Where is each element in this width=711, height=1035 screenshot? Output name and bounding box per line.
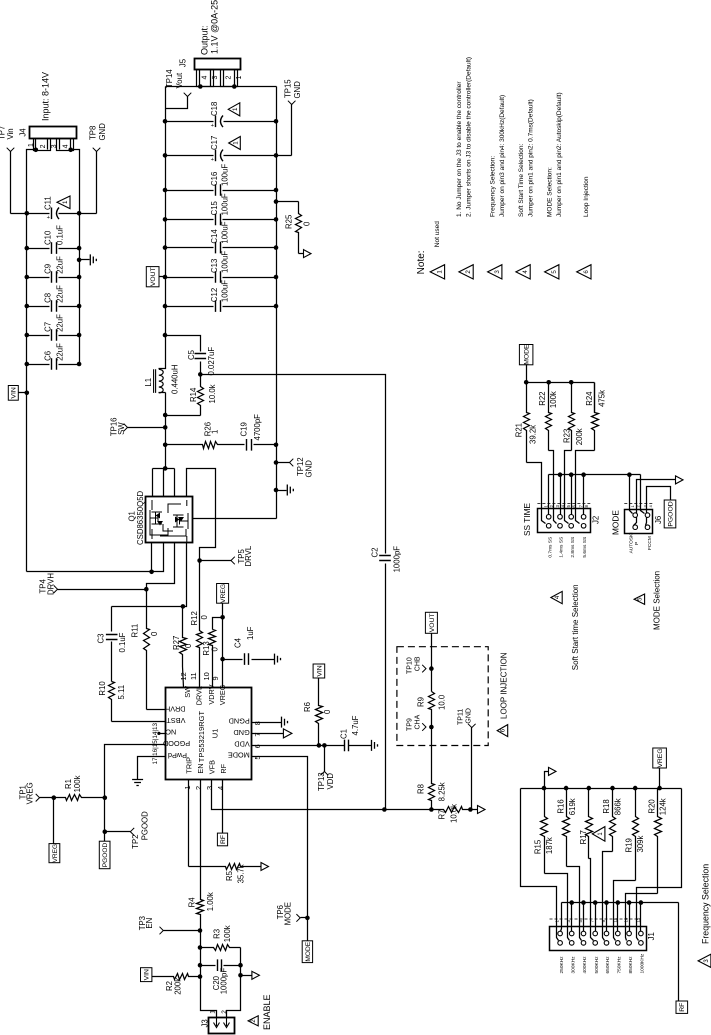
capacitor C17 — [166, 155, 214, 157]
svg-text:10.0k: 10.0k — [450, 804, 459, 823]
svg-text:VREG: VREG — [52, 844, 59, 863]
resistor R16 619k — [563, 789, 570, 867]
note triangle 2 at J3 — [248, 1016, 258, 1026]
svg-text:CSD86350Q5D: CSD86350Q5D — [136, 490, 145, 545]
svg-text:U1: U1 — [211, 729, 220, 739]
svg-text:MODE Selection: MODE Selection — [652, 571, 661, 630]
note triangle 3 at freq — [698, 954, 711, 967]
svg-text:R1: R1 — [64, 779, 73, 789]
resistor R11 0 — [144, 590, 150, 710]
svg-text:VDRV: VDRV — [207, 684, 216, 704]
capacitor C2 1000pF — [379, 556, 391, 561]
resistor R18 866k — [610, 789, 616, 852]
svg-text:500KHz: 500KHz — [594, 956, 600, 974]
resistor R5 35.7k — [189, 864, 262, 870]
svg-text:C9: C9 — [44, 264, 53, 274]
svg-text:250KHz: 250KHz — [559, 956, 565, 974]
svg-text:1.4ms SS: 1.4ms SS — [559, 537, 565, 558]
svg-text:R6: R6 — [303, 702, 312, 712]
note triangle 1 legend — [430, 265, 444, 279]
wire SS common line — [549, 474, 641, 476]
svg-text:VOUT: VOUT — [150, 267, 157, 286]
svg-text:1: 1 — [210, 430, 219, 434]
wire GND rail input — [79, 214, 81, 365]
testpoint TP11 GND — [468, 724, 476, 728]
svg-text:MODE Selection:: MODE Selection: — [547, 167, 554, 217]
svg-text:0: 0 — [211, 647, 220, 652]
svg-text:R14: R14 — [189, 387, 198, 402]
svg-text:R8: R8 — [417, 784, 426, 794]
svg-text:MODE: MODE — [611, 510, 621, 535]
svg-text:VOUT: VOUT — [429, 613, 436, 632]
svg-text:GND: GND — [233, 728, 249, 737]
svg-text:1: 1 — [236, 76, 243, 80]
svg-text:TP11: TP11 — [458, 709, 465, 725]
net label VREG below TP1 — [49, 844, 60, 863]
svg-text:R18: R18 — [602, 799, 611, 813]
wire J6 autoskip to arrow — [634, 480, 676, 526]
net label RF at J1 — [676, 1001, 688, 1013]
wire pin 8 PGND ground — [252, 722, 282, 724]
svg-text:11: 11 — [189, 672, 198, 680]
svg-text:R9: R9 — [417, 697, 426, 707]
svg-text:1000pF: 1000pF — [393, 546, 402, 573]
wire pin 3 VFB line — [212, 780, 432, 810]
svg-text:400KHz: 400KHz — [582, 956, 588, 974]
svg-text:VREG: VREG — [26, 782, 35, 804]
note triangle 5 legend — [545, 265, 559, 279]
svg-text:C7: C7 — [44, 322, 53, 332]
svg-text:C14: C14 — [210, 229, 219, 244]
svg-text:10.0: 10.0 — [438, 694, 447, 710]
svg-text:3: 3 — [205, 786, 214, 790]
inductor L1 0.440uH — [159, 336, 166, 369]
svg-text:Not used: Not used — [434, 221, 441, 247]
svg-text:Soft Start Time Selection:: Soft Start Time Selection: — [518, 143, 525, 217]
note triangle 6 legend — [577, 265, 591, 279]
svg-text:RF: RF — [679, 1003, 686, 1012]
svg-text:0: 0 — [302, 221, 311, 226]
net label RF at pin 4 — [217, 833, 227, 846]
wire Q1 DRVH pin — [147, 543, 175, 590]
svg-text:12: 12 — [179, 672, 188, 680]
testpoint TP12 GND — [277, 462, 290, 464]
svg-text:Loop Injection: Loop Injection — [583, 176, 590, 217]
wire GND rail to Q1 — [193, 518, 277, 520]
svg-text:PGOOD: PGOOD — [102, 842, 109, 867]
svg-text:187k: 187k — [545, 837, 554, 854]
svg-text:1uF: 1uF — [246, 626, 255, 640]
wire J6 fccm to PGOOD — [646, 487, 671, 526]
testpoint TP9 CHA — [422, 723, 426, 731]
svg-text:TP15: TP15 — [283, 79, 292, 98]
resistor R6 0 — [313, 664, 325, 678]
svg-text:VREG: VREG — [657, 748, 664, 767]
svg-text:2: 2 — [465, 270, 472, 274]
svg-text:DRVH: DRVH — [165, 704, 186, 713]
wire pin 7 GND triangle — [252, 733, 284, 735]
net label VIN on rail — [8, 386, 18, 401]
svg-text:R24: R24 — [585, 391, 594, 406]
wire RF line to RF label — [678, 903, 680, 1002]
svg-text:Jumper on pin1 and pin2: 0.7ms: Jumper on pin1 and pin2: 0.7ms(Default) — [527, 99, 534, 217]
svg-text:8: 8 — [253, 721, 262, 725]
capacitor C11 — [11, 213, 50, 215]
svg-text:R25: R25 — [285, 214, 294, 229]
svg-text:R5: R5 — [225, 870, 234, 881]
svg-text:100uF: 100uF — [221, 251, 230, 273]
svg-text:VIN: VIN — [144, 969, 151, 980]
note triangle 5 at MODE — [634, 594, 645, 604]
svg-text:P: P — [634, 542, 640, 545]
svg-text:0.440uH: 0.440uH — [170, 365, 179, 394]
svg-text:R19: R19 — [625, 838, 634, 852]
wire C5 junction to C2 — [201, 375, 386, 554]
svg-text:1: 1 — [437, 270, 444, 274]
svg-text:J3: J3 — [200, 1019, 209, 1027]
note triangle 2 legend — [459, 265, 473, 279]
wire pin 5 MODE net — [252, 757, 308, 941]
svg-text:22uF: 22uF — [55, 285, 64, 303]
ground at C10 row — [80, 259, 90, 261]
svg-text:EN: EN — [145, 918, 154, 929]
svg-text:Jumper on pin3 and pin4: 300kH: Jumper on pin3 and pin4: 300kHz(Default) — [499, 95, 506, 217]
wire Q1 SW pins to SW rail — [152, 469, 154, 497]
svg-text:C13: C13 — [210, 259, 219, 273]
svg-text:475k: 475k — [597, 390, 606, 407]
wire VIN to Q1 — [27, 543, 164, 572]
resistor R1 100k — [40, 795, 105, 801]
resistor R12 0 — [197, 561, 203, 688]
svg-text:CHB: CHB — [415, 656, 422, 671]
resistor R3 100k — [201, 945, 241, 951]
svg-text:0.027uF: 0.027uF — [207, 347, 216, 376]
svg-text:R11: R11 — [131, 624, 140, 638]
testpoint TP5 DRVL — [200, 560, 232, 562]
svg-text:0.1uF: 0.1uF — [55, 225, 64, 245]
capacitor C16 100uF — [166, 190, 214, 192]
resistor R8 8.25k — [429, 728, 435, 810]
wire RF common line — [562, 902, 679, 904]
capacitor C18 — [166, 121, 214, 123]
wire Q1 DRVL path — [187, 469, 216, 561]
op-amp U1 TPS53219RGT body — [166, 688, 252, 780]
svg-text:FCCM: FCCM — [647, 536, 653, 550]
svg-text:Frequency Selection: Frequency Selection — [700, 864, 710, 944]
wire SS common to J2 pins — [548, 475, 550, 515]
svg-text:100uF: 100uF — [221, 221, 230, 243]
svg-text:13: 13 — [624, 917, 629, 922]
svg-text:2.8ms SS: 2.8ms SS — [570, 537, 576, 558]
capacitor C20 1000pF — [201, 965, 216, 967]
wire RF line to J1 top pins — [561, 903, 562, 932]
resistor R25 0 — [277, 201, 299, 203]
svg-text:1.00k: 1.00k — [206, 892, 215, 911]
testpoint TP6 MODE — [301, 917, 308, 919]
loop injection dashed box — [397, 647, 488, 746]
svg-text:1000pF: 1000pF — [220, 968, 229, 995]
note triangle 1 at C17 — [229, 137, 241, 150]
resistor R21 39.2k — [524, 383, 530, 463]
svg-text:10.0k: 10.0k — [208, 384, 217, 403]
svg-text:R27: R27 — [172, 636, 181, 650]
resistor R23 200k — [569, 383, 575, 451]
capacitor C7 22uF — [27, 335, 50, 337]
svg-text:NC: NC — [166, 727, 177, 736]
svg-text:5.6ms SS: 5.6ms SS — [582, 537, 588, 558]
resistor R13 0 — [213, 618, 223, 630]
svg-text:1: 1 — [28, 143, 35, 147]
svg-text:J5: J5 — [179, 58, 188, 67]
svg-text:5: 5 — [551, 270, 558, 274]
wire VIN rail left — [26, 214, 28, 572]
svg-text:AUTOSKI: AUTOSKI — [629, 532, 635, 553]
svg-text:TP10: TP10 — [407, 657, 414, 674]
svg-text:SW: SW — [183, 686, 192, 698]
svg-text:VBST: VBST — [166, 716, 186, 725]
net label VREG at driver — [217, 584, 229, 604]
svg-text:22uF: 22uF — [55, 314, 64, 332]
capacitor C1 4.7uF — [345, 740, 349, 752]
svg-text:RF: RF — [219, 763, 228, 773]
resistor R10 5.11 — [109, 682, 115, 722]
svg-text:VFB: VFB — [208, 760, 217, 774]
wire pin 17 to ground — [138, 757, 166, 780]
svg-text:8.25k: 8.25k — [438, 782, 447, 801]
testpoint TP13 VDD — [324, 746, 326, 772]
svg-text:J4: J4 — [19, 128, 28, 137]
net label MODE at soft start — [519, 345, 533, 365]
svg-text:R3: R3 — [213, 929, 222, 939]
svg-text:GND: GND — [305, 460, 314, 478]
net label PGOOD below TP2 — [99, 841, 110, 869]
svg-text:GND: GND — [293, 81, 302, 99]
capacitor C5 0.027uF — [166, 336, 201, 352]
svg-text:17|16|15|14|13: 17|16|15|14|13 — [152, 722, 159, 764]
svg-text:0: 0 — [150, 631, 159, 636]
svg-text:DRVH: DRVH — [46, 573, 55, 595]
svg-text:C10: C10 — [44, 230, 53, 245]
connector J1 frequency header — [550, 927, 647, 951]
svg-text:TP14: TP14 — [165, 69, 174, 88]
svg-text:R13: R13 — [202, 641, 211, 655]
svg-text:C2: C2 — [370, 548, 379, 558]
svg-text:5.11: 5.11 — [117, 685, 126, 700]
net label VREG at freq bus — [653, 748, 667, 768]
wire SW rail — [165, 393, 167, 469]
svg-text:100uF: 100uF — [221, 164, 230, 186]
svg-text:TP12: TP12 — [296, 457, 305, 476]
svg-text:39.2k: 39.2k — [529, 425, 538, 444]
resistor R2 200k — [141, 968, 152, 982]
svg-text:C6: C6 — [44, 351, 53, 361]
svg-text:TRIP: TRIP — [185, 757, 194, 774]
svg-text:R17: R17 — [579, 830, 588, 844]
svg-text:EN: EN — [196, 763, 205, 773]
svg-text:850KHz: 850KHz — [628, 956, 634, 974]
note triangle 4 at SS — [551, 591, 562, 603]
svg-text:SS TIME: SS TIME — [522, 502, 532, 536]
note triangle 1 at R17 — [592, 827, 605, 842]
resistor R22 100k — [546, 383, 552, 451]
svg-text:0: 0 — [323, 709, 332, 714]
wire freq bus right direct to J1 — [637, 789, 682, 941]
wire TP8 to C11 row — [96, 152, 98, 214]
svg-text:3: 3 — [51, 144, 58, 148]
svg-text:35.7k: 35.7k — [236, 864, 245, 883]
capacitor C19 4700pF — [247, 439, 252, 451]
wire VOUT rail — [165, 87, 167, 336]
svg-text:22uF: 22uF — [55, 343, 64, 361]
svg-text:15: 15 — [635, 917, 640, 922]
svg-text:TP2: TP2 — [131, 834, 140, 848]
svg-text:1000KHz: 1000KHz — [640, 953, 646, 973]
wire output GND rail — [276, 87, 278, 519]
svg-text:C11: C11 — [44, 196, 53, 210]
resistor R19 309k — [633, 789, 639, 881]
svg-text:C17: C17 — [210, 136, 219, 150]
svg-text:309k: 309k — [636, 835, 645, 852]
resistor R4 1.00k — [197, 881, 204, 926]
resistor R24 475k — [594, 383, 596, 413]
svg-text:C8: C8 — [44, 293, 53, 303]
svg-text:1: 1 — [62, 200, 69, 204]
capacitor C6 22uF — [27, 364, 50, 366]
svg-text:6: 6 — [583, 270, 590, 274]
svg-text:11: 11 — [612, 917, 617, 922]
svg-text:PGND: PGND — [229, 716, 250, 725]
svg-text:Jumper on pin1 and pin2: Autos: Jumper on pin1 and pin2: Autoskip(Defaul… — [556, 92, 563, 217]
testpoint TP2 PGOOD — [105, 831, 131, 833]
svg-text:VREG: VREG — [220, 584, 227, 603]
wire pin 2 EN — [200, 780, 202, 881]
svg-text:R16: R16 — [556, 799, 565, 813]
wire J4 pin4 to GND rail — [68, 148, 73, 153]
connector J6 MODE header — [625, 510, 653, 534]
net label PGOOD at J6 — [664, 500, 676, 528]
svg-text:4.7uF: 4.7uF — [351, 715, 360, 735]
capacitor C14 100uF — [166, 247, 214, 249]
svg-text:ENABLE: ENABLE — [262, 994, 272, 1030]
resistor R14 10.0k — [198, 375, 204, 416]
svg-text:R20: R20 — [647, 799, 656, 814]
note triangle 4 legend — [516, 265, 530, 279]
wire TP14 to VOUT rail — [166, 97, 188, 109]
svg-text:PGOOD: PGOOD — [163, 739, 190, 748]
wire TP7 to C11 row — [10, 152, 12, 214]
wire freq bus left direct to J1 — [521, 789, 559, 941]
svg-text:GND: GND — [466, 708, 473, 724]
svg-text:4700pF: 4700pF — [253, 414, 262, 441]
svg-text:R10: R10 — [98, 681, 107, 696]
svg-text:100uF: 100uF — [221, 280, 230, 302]
svg-text:3: 3 — [212, 76, 219, 80]
svg-text:9: 9 — [211, 676, 220, 680]
svg-text:0.7ms SS: 0.7ms SS — [547, 537, 553, 558]
wire MODE common to J6 — [630, 475, 633, 514]
resistor R15 187k — [541, 789, 548, 874]
connector J4 input header — [30, 127, 77, 139]
note triangle 3 legend — [488, 265, 502, 279]
svg-text:PGOOD: PGOOD — [140, 811, 149, 840]
svg-text:R4: R4 — [188, 897, 197, 908]
svg-text:750KHz: 750KHz — [617, 956, 623, 974]
capacitor C12 100uF — [166, 306, 214, 308]
svg-text:4: 4 — [522, 270, 529, 274]
wire pin 16 PGOOD net — [105, 745, 166, 832]
wire VOUT to R9 — [431, 634, 433, 692]
wire TP15 to C17 row — [291, 105, 293, 156]
wire freq bus — [659, 769, 661, 789]
svg-text:VIN: VIN — [11, 387, 18, 398]
connector J5 output header — [195, 59, 241, 70]
svg-text:0: 0 — [184, 643, 193, 648]
svg-text:C1: C1 — [340, 729, 349, 739]
wire Q1 VIN pins — [151, 543, 153, 572]
svg-text:4: 4 — [63, 144, 70, 148]
note triangle 6 at loop injection — [497, 725, 508, 737]
capacitor C8 22uF — [27, 306, 50, 308]
svg-text:VDD: VDD — [234, 739, 249, 748]
capacitor C4 1uF — [223, 659, 243, 661]
testpoint TP3 EN — [164, 930, 201, 932]
wire pin 1 TRIP to R5 — [188, 780, 190, 867]
svg-text:866k: 866k — [613, 798, 622, 815]
net label MODE at TP6 — [302, 941, 312, 963]
svg-text:DRVL: DRVL — [244, 545, 253, 566]
svg-text:RF: RF — [220, 835, 227, 844]
svg-text:100uF: 100uF — [221, 193, 230, 215]
svg-text:VIN: VIN — [316, 665, 323, 676]
svg-text:J1: J1 — [647, 932, 656, 940]
testpoint TP10 CHB — [422, 665, 426, 673]
svg-text:C19: C19 — [240, 422, 249, 436]
transistor Q1 CSD86350Q5D — [146, 497, 193, 543]
svg-text:J6: J6 — [654, 516, 663, 524]
svg-text:1: 1 — [232, 107, 239, 111]
svg-text:2: 2 — [225, 76, 232, 80]
wire J4 pin1 to VIN rail — [34, 148, 39, 153]
svg-text:4: 4 — [216, 786, 225, 790]
resistor R7 10.0k — [432, 807, 471, 813]
svg-text:SW: SW — [117, 422, 126, 435]
svg-text:PGOOD: PGOOD — [667, 501, 674, 526]
ground at output rail — [277, 490, 287, 492]
svg-text:LOOP INJECTION: LOOP INJECTION — [499, 652, 508, 719]
svg-text:TP13: TP13 — [317, 772, 326, 791]
resistor R26 1 — [166, 442, 245, 449]
net label VOUT at loop injection — [425, 612, 437, 633]
svg-text:1.1V @0A-25A: 1.1V @0A-25A — [209, 0, 219, 54]
svg-text:Vin: Vin — [6, 128, 15, 139]
svg-text:C16: C16 — [210, 172, 219, 186]
svg-text:200k: 200k — [174, 978, 183, 995]
svg-text:MODE: MODE — [305, 941, 312, 961]
svg-text:100k: 100k — [549, 391, 558, 408]
wire pin 6 VDD line — [252, 745, 345, 747]
capacitor C15 100uF — [166, 219, 214, 221]
capacitor C3 0.1uF — [111, 607, 113, 632]
wire output top bus — [166, 86, 277, 88]
svg-text:3: 3 — [494, 270, 501, 274]
wire Q1 SW sense to R27 line — [112, 543, 187, 607]
wire VREG to pin 9 — [222, 604, 224, 688]
svg-text:2: 2 — [194, 786, 203, 790]
svg-text:100k: 100k — [73, 775, 82, 792]
capacitor C10 0.1uF — [27, 248, 50, 250]
svg-text:R22: R22 — [538, 391, 547, 405]
resistor R9 10.0 — [429, 692, 435, 728]
